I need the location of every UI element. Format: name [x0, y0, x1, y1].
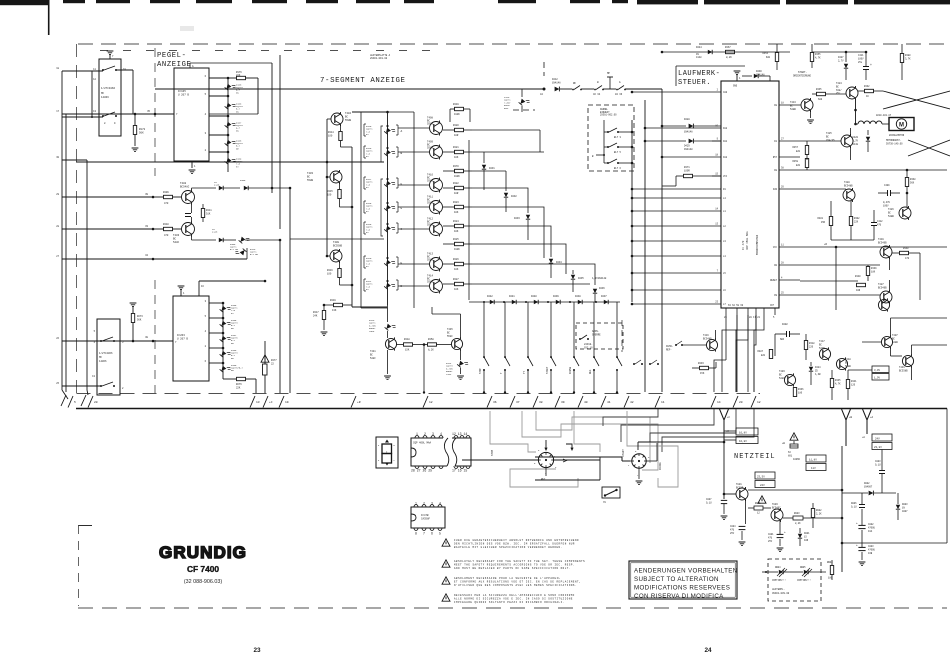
node at D412	[543, 88, 546, 91]
svg-text:33: 33	[145, 225, 148, 228]
transistor T413 BC558B	[430, 258, 443, 271]
svg-text:LAUFWERK-: LAUFWERK-	[678, 70, 720, 78]
svg-text:D9: D9	[774, 294, 777, 297]
LED assembly enclosure top edge	[361, 111, 414, 113]
segment group bracket box mid	[381, 179, 383, 236]
svg-text:+C: +C	[269, 401, 273, 404]
svg-text:D0: D0	[774, 264, 777, 267]
svg-text:N'UTILISER QUE DES COMPOSANTS: N'UTILISER QUE DES COMPOSANTS AVEC LES M…	[454, 584, 577, 587]
motor inductor coil	[858, 121, 882, 124]
svg-text:REC: REC	[589, 369, 592, 374]
resistor R420 10R	[443, 129, 455, 131]
svg-text:R409: R409	[163, 191, 169, 194]
resistor R440 10R	[857, 283, 866, 286]
IC pin 25 bottom bump	[439, 466, 443, 468]
IC478 pin 7 bump	[422, 528, 426, 530]
LED C413 aufnahme anzeige	[521, 89, 523, 97]
wire T428 emitter row y201	[853, 200, 875, 202]
svg-text:25V: 25V	[730, 532, 735, 535]
svg-text:558B: 558B	[427, 224, 434, 227]
svg-text:F: F	[401, 183, 403, 186]
svg-text:100R: 100R	[684, 169, 690, 172]
switch contact BLT 6	[607, 162, 609, 164]
svg-text:GN: GN	[231, 357, 234, 360]
svg-text:R426: R426	[453, 258, 459, 261]
scan top edge dashes	[63, 0, 85, 3]
connector pin 12	[751, 396, 756, 408]
wire netz y494 T801 base	[724, 493, 736, 495]
svg-text:7: 7	[423, 532, 425, 536]
svg-text:A: A	[401, 130, 403, 133]
wire base T413	[398, 263, 430, 265]
ground under T445	[460, 368, 462, 374]
resistor R415 100	[339, 183, 341, 189]
wire base T412	[398, 228, 430, 230]
diode D412 1N4148	[555, 87, 560, 92]
svg-text:0: 0	[635, 450, 637, 453]
svg-text:M: M	[899, 123, 904, 129]
svg-text:BC546B: BC546B	[878, 286, 887, 289]
svg-text:D438: D438	[575, 295, 581, 298]
dash-dot stub above node 44	[543, 62, 545, 76]
LED D168 level indicator	[225, 137, 237, 149]
diode D428 1N4148	[662, 125, 686, 127]
wire rail x662 vertical	[661, 128, 663, 392]
netz mid rail y503	[724, 502, 813, 504]
connector pin 20	[88, 396, 93, 408]
svg-text:7-SEGMENT ANZEIGE: 7-SEGMENT ANZEIGE	[320, 77, 406, 85]
svg-text:+: +	[856, 522, 858, 525]
dash-dot section boundary x155	[154, 48, 156, 176]
dashed box AUFN SPERRE	[576, 323, 623, 349]
capacitor C412 47u	[871, 222, 877, 224]
svg-text:42: 42	[630, 401, 634, 404]
wire option row	[762, 571, 770, 573]
scan gray smudge	[180, 26, 194, 31]
svg-text:GN: GN	[236, 91, 239, 94]
resistor R414 100	[340, 125, 342, 131]
svg-text:L7: L7	[723, 303, 726, 306]
LED D421 segment D	[384, 280, 396, 292]
wire pin28 row y265	[800, 264, 880, 266]
transistor T408 BC558B	[330, 250, 342, 262]
ground under T441	[387, 350, 389, 374]
svg-text:L4: L4	[723, 197, 726, 200]
svg-text:9: 9	[717, 138, 719, 141]
IC473 GND top pin	[736, 74, 738, 81]
svg-text:9: 9	[114, 122, 116, 125]
svg-text:RT: RT	[366, 133, 369, 136]
svg-text:2,2K: 2,2K	[816, 512, 822, 515]
wire rail x775 vertical	[774, 334, 776, 356]
connector slash marks left edge	[61, 395, 66, 406]
IC pin 14 top bump	[466, 436, 470, 438]
wire run y226 stair	[472, 226, 551, 257]
LED D208 level indicator	[220, 318, 232, 330]
IC pin 1 top bump	[415, 436, 419, 438]
wire rail x272	[271, 63, 273, 193]
svg-text:29301-019.02: 29301-019.02	[370, 57, 388, 60]
switch contact BLT 3	[607, 131, 609, 133]
svg-text:GRUNDIG: GRUNDIG	[159, 543, 247, 562]
LED D416 segment B	[384, 147, 396, 159]
svg-text:D434: D434	[556, 261, 562, 264]
feed arrow +B	[842, 409, 851, 446]
svg-text:R424: R424	[453, 220, 459, 223]
svg-text:L3: L3	[723, 240, 726, 243]
transistor T403b BC558B	[330, 171, 342, 183]
IC473 pin D8 right lead	[779, 169, 800, 171]
LED D417 segment F	[384, 178, 396, 190]
resistor R803 2.2K	[793, 516, 803, 520]
svg-text:+: +	[870, 63, 872, 67]
svg-text:39: 39	[145, 193, 148, 196]
svg-text:4,7K: 4,7K	[835, 382, 841, 385]
transistor T402 BC548C	[182, 191, 195, 204]
svg-text:1N4148: 1N4148	[684, 131, 693, 134]
svg-text:RT: RT	[366, 231, 369, 234]
svg-text:WICKELMOTOR: WICKELMOTOR	[889, 134, 905, 137]
push switch START	[550, 356, 552, 358]
svg-text:22: 22	[271, 363, 274, 366]
svg-text:A: A	[619, 81, 621, 84]
IC165 bottom pin ground	[191, 161, 193, 168]
svg-text:7: 7	[717, 270, 719, 273]
dashed corner at GRUNDIG field	[78, 525, 80, 606]
switch contact BLT 5	[607, 146, 609, 148]
svg-text:VCC: VCC	[773, 246, 778, 249]
svg-text:R458: R458	[428, 338, 434, 341]
wire head2 right lead up	[646, 460, 657, 462]
transistor T445 BC558C	[451, 338, 462, 349]
svg-text:4: 4	[781, 277, 783, 280]
svg-text:SPERRE: SPERRE	[592, 334, 601, 337]
wire run y188 stair	[472, 188, 528, 213]
push switch STOP	[483, 356, 485, 358]
svg-text:820: 820	[761, 354, 766, 357]
switch contact S1a	[102, 69, 104, 71]
svg-text:5: 5	[205, 315, 207, 318]
IC478 pin 4 bump	[438, 505, 442, 507]
svg-text:RT: RT	[236, 165, 239, 168]
svg-text:10R: 10R	[454, 192, 459, 195]
wire switch lower leads	[62, 116, 103, 118]
secondary top dashes	[100, 50, 440, 52]
svg-text:1/2TC4066: 1/2TC4066	[101, 86, 115, 90]
BLT common vertical wire	[603, 120, 605, 163]
dashed box FERNB-EINHEIT 29301-002.00	[588, 105, 634, 171]
svg-text:51K: 51K	[206, 213, 211, 216]
svg-text:U 267 B: U 267 B	[178, 94, 189, 97]
svg-text:4: 4	[205, 113, 207, 116]
svg-text:R401: R401	[817, 217, 823, 220]
wire pin38 row y170	[800, 169, 947, 171]
svg-text:5: 5	[94, 330, 96, 333]
svg-text:GN: GN	[231, 342, 234, 345]
faded routing loop 1	[522, 411, 658, 470]
svg-text:D441: D441	[509, 295, 515, 298]
svg-text:+: +	[856, 544, 858, 547]
svg-text:3: 3	[122, 341, 124, 344]
push switch T	[504, 356, 506, 358]
wire switch upper left	[62, 70, 103, 72]
svg-text:12: 12	[93, 78, 96, 81]
IC473 pin VCC right lead	[779, 246, 800, 248]
diode D424 ZD 1.6B	[809, 367, 813, 371]
LED D167 level indicator	[225, 119, 237, 131]
svg-text:START: START	[622, 449, 625, 457]
svg-text:CA0: CA0	[723, 91, 728, 94]
svg-text:1: 1	[739, 77, 741, 80]
svg-text:E: E	[378, 459, 380, 462]
connector pin 5	[68, 396, 73, 408]
resistor R433 15K	[692, 367, 699, 369]
ground at switch block top	[109, 54, 111, 59]
IC473 pin VCC lead	[712, 175, 721, 177]
svg-text:AND MUST BE REPLACED BY PARTS: AND MUST BE REPLACED BY PARTS OF SAME SP…	[454, 567, 571, 570]
svg-text:5: 5	[773, 316, 775, 319]
svg-text:34: 34	[145, 254, 148, 257]
svg-text:+R: +R	[357, 401, 361, 404]
svg-text:D435: D435	[578, 277, 584, 280]
svg-text:D8: D8	[774, 169, 777, 172]
svg-text:39: 39	[561, 401, 565, 404]
svg-text:14066: 14066	[101, 96, 109, 99]
wire run y244 stair	[472, 244, 566, 274]
svg-text:LEITERPL.: LEITERPL.	[772, 588, 785, 591]
svg-text:BC548C: BC548C	[180, 186, 190, 189]
wire y259 node 34 row	[62, 258, 247, 260]
svg-text:6: 6	[205, 75, 207, 78]
svg-text:120: 120	[851, 383, 856, 386]
faded routing loop 2	[536, 411, 650, 463]
connector pin 39	[555, 396, 560, 408]
svg-text:2,2K: 2,2K	[795, 522, 801, 525]
IC473 pin D0 right lead	[779, 264, 800, 266]
wire pin18 row to T413 base	[800, 104, 801, 106]
svg-text:BC548B: BC548B	[703, 337, 712, 340]
svg-text:20: 20	[781, 186, 784, 189]
svg-text:41: 41	[607, 401, 611, 404]
svg-text:4: 4	[205, 330, 207, 333]
svg-text:SUBJECT TO ALTERATION: SUBJECT TO ALTERATION	[634, 576, 719, 583]
svg-text:R433: R433	[698, 362, 704, 365]
svg-text:RT: RT	[366, 186, 369, 189]
diode D435 1.2x1N4148	[571, 275, 575, 279]
wire T418 emitter to voltage boxes	[848, 369, 872, 371]
svg-text:1N4148: 1N4148	[552, 81, 561, 84]
wire rail x645 vertical	[644, 100, 646, 392]
IC473 pin L6 lead	[632, 289, 721, 291]
svg-text:7: 7	[112, 55, 114, 58]
voltage box 16.8V b	[736, 437, 758, 444]
svg-text:MC: MC	[99, 356, 103, 359]
svg-text:1,6B: 1,6B	[815, 373, 821, 376]
microcomputer IC473 CDP450L MAA	[721, 81, 779, 308]
svg-text:11: 11	[781, 244, 784, 247]
svg-text:12: 12	[429, 401, 433, 404]
diode D442 1N4148	[490, 300, 494, 304]
wire y490 T801 collector	[748, 489, 842, 491]
wire rail x280 lower	[279, 240, 281, 393]
svg-text:27: 27	[56, 255, 59, 258]
svg-text:G: G	[401, 207, 403, 210]
IC263 pin 3 lead	[209, 302, 223, 304]
svg-text:BLT 6: BLT 6	[614, 167, 622, 170]
svg-text:CON RISERVA DI MODIFICA: CON RISERVA DI MODIFICA	[634, 593, 724, 600]
resistor R468 56K vertical	[905, 178, 908, 187]
resistor R4016 15R vertical	[829, 217, 832, 226]
svg-text:BAUTEILE MIT GLEICHER SPEZIFIK: BAUTEILE MIT GLEICHER SPEZIFIKATION VERW…	[454, 546, 563, 549]
svg-text:4148: 4148	[212, 231, 218, 234]
svg-text:78: 78	[603, 501, 606, 504]
LED D413 CQYT1 8-70R RANG-LAUF	[385, 321, 397, 333]
svg-text:D432: D432	[511, 195, 517, 198]
connector pin +R	[351, 396, 356, 408]
rotary head REC left	[538, 452, 553, 467]
node 39	[152, 196, 155, 199]
voltage box 23.8V	[872, 443, 892, 450]
wire run y264 stair	[472, 264, 595, 285]
svg-text:B: B	[592, 155, 594, 158]
wires crossing X to right edge	[883, 91, 950, 109]
wires right transistors	[890, 348, 892, 356]
svg-text:190K: 190K	[454, 113, 460, 116]
svg-text:2: 2	[205, 345, 207, 348]
svg-text:13: 13	[256, 401, 260, 404]
IC473 pin IH2 lead	[645, 127, 721, 129]
svg-text:11: 11	[661, 401, 665, 404]
svg-text:28 27 26 25: 28 27 26 25	[411, 469, 432, 473]
svg-text:16: 16	[201, 285, 204, 288]
transistor T407b BC548B right	[881, 336, 892, 347]
transistor T418 BC548B	[836, 358, 847, 369]
IC pin 2 top bump	[423, 436, 427, 438]
transistor T403b BC548C netz	[784, 374, 795, 385]
svg-text:13: 13	[715, 223, 718, 226]
svg-text:R418: R418	[404, 338, 410, 341]
svg-text:6: 6	[538, 449, 540, 452]
svg-text:2: 2	[717, 89, 719, 92]
svg-text:18K: 18K	[871, 270, 876, 273]
arrow into head1 top	[545, 440, 547, 450]
svg-text:28: 28	[781, 262, 784, 265]
LED chain vertical wire	[227, 78, 229, 168]
LED D165 level indicator	[225, 81, 237, 93]
svg-text:TT: TT	[523, 371, 526, 374]
diode D408 1N4148	[219, 238, 223, 242]
svg-text:558B: 558B	[427, 259, 434, 262]
svg-text:D1: D1	[723, 188, 726, 191]
svg-text:38: 38	[145, 336, 148, 339]
svg-text:15K: 15K	[700, 372, 705, 375]
svg-text:100MA: 100MA	[793, 458, 801, 461]
wire after switch A	[625, 88, 662, 90]
wire rail x256 to connector	[255, 379, 257, 393]
diode D405 level	[244, 186, 248, 190]
connector pin 20	[733, 396, 738, 408]
svg-text:+B: +B	[849, 416, 853, 419]
IC165 pin 3 lead	[209, 134, 228, 136]
svg-text:558B: 558B	[427, 147, 434, 150]
svg-text:10K: 10K	[454, 268, 459, 271]
svg-text:3: 3	[431, 502, 433, 506]
svg-text:100: 100	[327, 194, 332, 197]
svg-text:27: 27	[781, 138, 784, 141]
svg-text:ANZ.: ANZ.	[504, 107, 509, 110]
wire pin25 row y295	[800, 294, 880, 296]
ground under T413	[810, 111, 812, 118]
resistor R176 22K	[228, 77, 236, 79]
wire T403 emitter right chain	[191, 236, 193, 240]
diode D432	[505, 171, 507, 191]
transistor T427 BC546B	[880, 291, 892, 303]
connector pin +C	[263, 396, 268, 408]
push switch PAUSE	[573, 356, 575, 358]
7-segment display symbol	[376, 437, 398, 468]
IC473 pin IHS right lead	[779, 188, 800, 190]
svg-text:L4: L4	[723, 255, 726, 258]
routing wire from connector 11	[603, 409, 658, 426]
MP riser with ground	[609, 77, 611, 89]
far left vertical wire 1	[61, 71, 63, 390]
LED D418 segment G	[384, 202, 396, 214]
svg-text:25V: 25V	[768, 540, 773, 543]
svg-text:19: 19	[285, 401, 289, 404]
LED chain bottom lead	[227, 168, 229, 172]
resistor R418 15K	[396, 344, 404, 346]
netz right rail y542	[842, 542, 947, 544]
svg-text:R420: R420	[453, 124, 459, 127]
netz rail vertical x842	[841, 446, 843, 572]
voltage box 16.8V a	[736, 428, 758, 435]
svg-text:548B: 548B	[888, 215, 894, 218]
svg-text:3: 3	[432, 432, 434, 436]
transistor T403 BC548C	[182, 223, 195, 236]
IC263 pin 6 lead	[209, 362, 223, 364]
resistor R423 10K	[443, 206, 455, 208]
push switch S	[616, 356, 618, 358]
IC473 pin R57 right lead	[779, 156, 800, 158]
wire collector rail to lower block	[352, 306, 387, 308]
svg-text:37: 37	[516, 401, 520, 404]
svg-text:190K: 190K	[454, 248, 460, 251]
pin A top lead of IC165	[189, 63, 191, 68]
svg-text:T: T	[500, 372, 503, 374]
node 33	[152, 228, 155, 231]
display driver IC CQP400L MAA with torn middle	[411, 438, 447, 466]
svg-text:0,1U: 0,1U	[706, 501, 712, 504]
svg-text:14: 14	[717, 401, 721, 404]
switch contacts left of T416	[681, 344, 683, 346]
svg-text:R801: R801	[755, 502, 761, 505]
wire T424 emitter down	[855, 99, 857, 124]
svg-text:CDP 450L MAA: CDP 450L MAA	[746, 231, 749, 250]
svg-text:032.10: 032.10	[584, 347, 593, 350]
segment LED bus vertical	[387, 112, 389, 305]
capacitor R477 22 with warning	[261, 355, 269, 362]
svg-text:D437: D437	[601, 295, 607, 298]
BLT lead B	[596, 154, 604, 156]
svg-text:5: 5	[205, 93, 207, 96]
svg-text:STOP: STOP	[479, 368, 482, 374]
routing wire from connector 12b	[662, 409, 754, 452]
svg-text:15K: 15K	[405, 349, 410, 352]
right area verticals down to netzteil	[826, 247, 828, 300]
bottom dash-dot border	[78, 607, 947, 609]
capacitor C802 4700u 16V electrolytic	[858, 524, 865, 526]
label frame corner	[675, 66, 677, 86]
